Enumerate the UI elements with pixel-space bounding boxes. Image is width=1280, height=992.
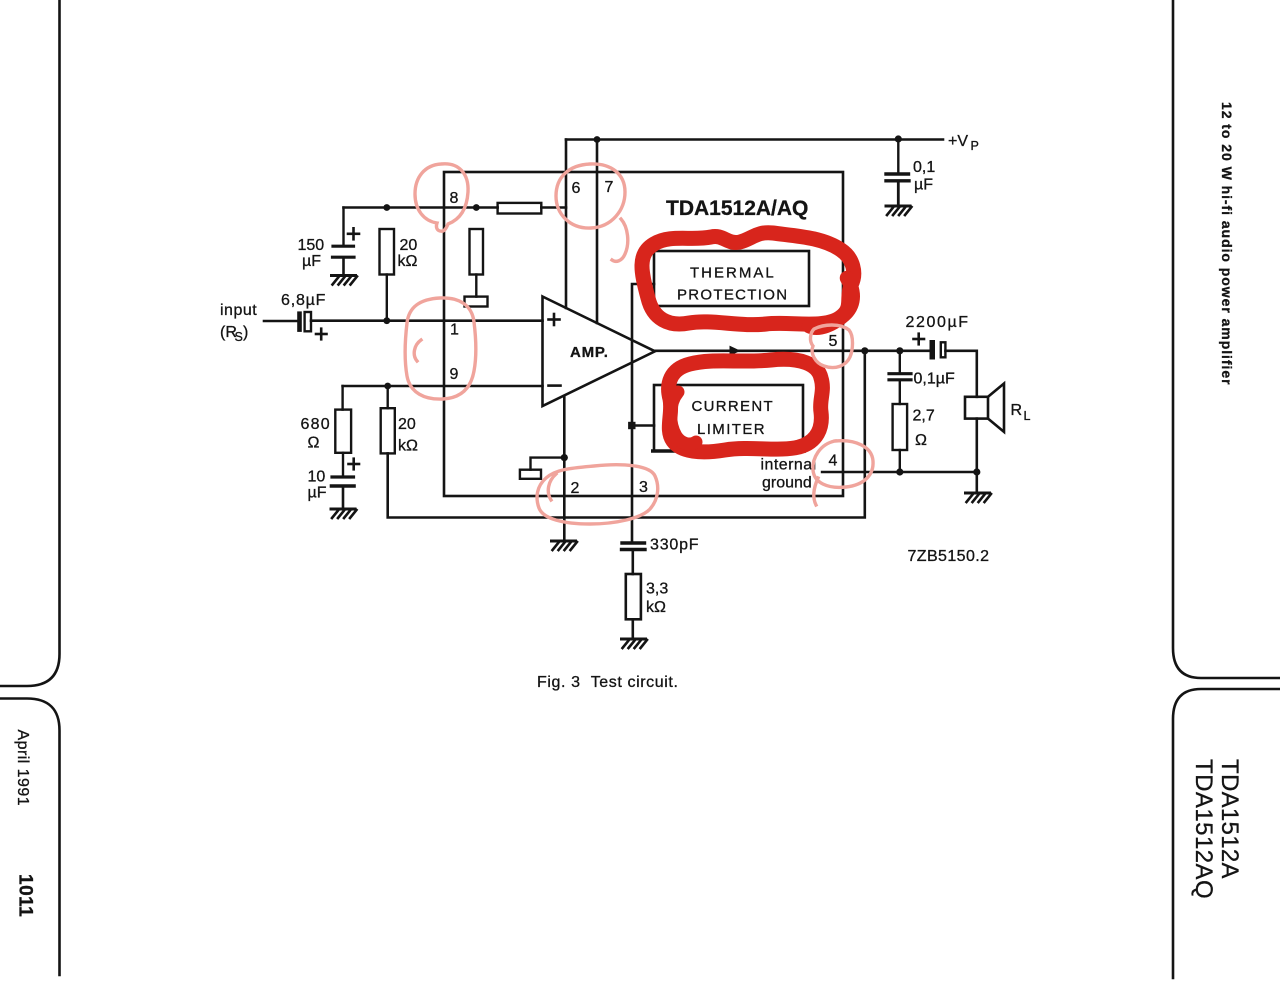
loudspeaker RL bbox=[965, 397, 988, 419]
svg-text:3,3: 3,3 bbox=[646, 581, 668, 598]
resistor 680 ohm stub bbox=[341, 386, 343, 410]
wire pin 2 vertical bbox=[563, 396, 566, 540]
svg-text:10: 10 bbox=[308, 469, 326, 486]
capacitor C 0.1uF supply: stub bbox=[897, 139, 899, 172]
red marker loop around thermal protection bbox=[642, 233, 854, 325]
tab terminal near pin 2 bbox=[520, 470, 541, 479]
svg-text:2200µF: 2200µF bbox=[906, 314, 970, 331]
pink circle around pins 1 and 9 bbox=[405, 298, 476, 399]
svg-text:680: 680 bbox=[301, 416, 331, 433]
svg-text:2,7: 2,7 bbox=[913, 408, 935, 425]
svg-text:5: 5 bbox=[829, 333, 838, 350]
svg-text:CURRENT: CURRENT bbox=[692, 398, 774, 415]
current limiter box bbox=[654, 385, 803, 451]
svg-text:input: input bbox=[220, 302, 257, 319]
svg-text:2: 2 bbox=[571, 480, 580, 497]
node output/zobel bbox=[896, 347, 903, 354]
node rail/20k top bbox=[383, 204, 390, 211]
op-amp AMP triangle bbox=[543, 297, 656, 407]
pink circle around pins 2 and 3 bbox=[537, 465, 658, 524]
pink circle around pin 5 bbox=[810, 325, 852, 368]
plus sign 150uF bbox=[348, 233, 359, 236]
capacitor C 6.8uF input bbox=[297, 311, 302, 332]
capacitor C 0.1uF supply plates bbox=[886, 172, 909, 175]
svg-text:3: 3 bbox=[639, 479, 648, 496]
resistor 20k upper bbox=[380, 229, 395, 275]
svg-text:0,1: 0,1 bbox=[913, 159, 935, 176]
resistor horizontal pin8-pin6 bbox=[498, 203, 542, 214]
svg-text:ground: ground bbox=[762, 475, 812, 492]
svg-text:20: 20 bbox=[398, 416, 416, 433]
node rail/second divider bbox=[473, 204, 480, 211]
svg-text:6,8µF: 6,8µF bbox=[281, 292, 326, 309]
capacitor C 2200uF plates bbox=[930, 340, 936, 360]
svg-text:µF: µF bbox=[914, 177, 933, 194]
svg-text:8: 8 bbox=[450, 190, 459, 207]
red marker loop around current limiter bbox=[669, 359, 823, 452]
svg-text:7: 7 bbox=[605, 179, 614, 196]
node output/feedback bbox=[861, 347, 868, 354]
wire pin 6 vertical bbox=[565, 140, 568, 309]
svg-text:P: P bbox=[971, 139, 979, 153]
red marker wiggle left of current limiter bbox=[671, 392, 696, 444]
ground below 10uF bbox=[331, 509, 357, 518]
wire pin 1 input bbox=[311, 319, 543, 322]
resistor divider second chain bbox=[470, 229, 484, 275]
plus sign 2200uF bbox=[914, 338, 925, 341]
capacitor C 10uF stub bbox=[342, 453, 344, 475]
node pin3/current limiter bbox=[628, 422, 635, 429]
svg-text:LIMITER: LIMITER bbox=[697, 421, 766, 438]
svg-text:): ) bbox=[243, 324, 248, 341]
wire output pin 5 bbox=[655, 349, 930, 352]
svg-text:kΩ: kΩ bbox=[398, 438, 418, 455]
svg-text:9: 9 bbox=[450, 366, 459, 383]
wire current limiter to pin 3 bbox=[632, 424, 654, 427]
pink circle around pin 4 bbox=[813, 441, 873, 505]
page border left top bbox=[0, 0, 60, 686]
node top rail / pin7 bbox=[594, 136, 601, 143]
ground below pin 2 bbox=[552, 541, 578, 550]
wire speaker return to ground bbox=[975, 472, 978, 492]
capacitor C 0.1uF zobel stub bbox=[899, 351, 901, 372]
svg-text:1011: 1011 bbox=[15, 874, 36, 917]
wire pin 9 feedback input bbox=[343, 385, 543, 388]
node pin9/20k lower bbox=[384, 383, 391, 390]
node top rail / Vp decoupling bbox=[895, 135, 902, 142]
svg-text:kΩ: kΩ bbox=[646, 599, 666, 616]
resistor 2.7 ohm bbox=[893, 404, 908, 450]
IC box TDA1512A/AQ bbox=[444, 172, 843, 496]
page border right bottom bbox=[1173, 689, 1280, 978]
ground below 3.3k bbox=[622, 639, 648, 648]
wire pin8 top-left rail bbox=[344, 206, 498, 209]
node input/20k bbox=[383, 317, 390, 324]
ground at speaker return bbox=[966, 493, 992, 502]
svg-text:PROTECTION: PROTECTION bbox=[677, 287, 788, 304]
ground below 150uF bbox=[332, 276, 358, 285]
page border right top bbox=[1173, 0, 1280, 678]
svg-text:20: 20 bbox=[400, 237, 418, 254]
input lead wire bbox=[264, 320, 297, 323]
wire tab to pin 2 bbox=[531, 458, 565, 470]
wire 3.3k to ground bbox=[631, 619, 634, 638]
svg-text:TDA1512A/AQ: TDA1512A/AQ bbox=[666, 197, 808, 220]
svg-text:TDA1512A: TDA1512A bbox=[1216, 759, 1243, 879]
amp plus input marker bbox=[549, 318, 560, 321]
svg-text:R: R bbox=[1011, 402, 1023, 419]
capacitor C 330pF plates bbox=[622, 541, 645, 544]
pink circle around pins 6 and 7 bbox=[556, 164, 628, 261]
amp minus input marker bbox=[549, 384, 561, 387]
svg-text:7ZB5150.2: 7ZB5150.2 bbox=[908, 548, 990, 565]
tab terminal below divider bbox=[465, 297, 488, 307]
signal arrow on output wire bbox=[730, 346, 741, 356]
resistor 20k lower stub bbox=[387, 386, 389, 408]
wire 2200uF to speaker bbox=[946, 351, 977, 397]
capacitor C 150uF plates bbox=[333, 245, 354, 248]
svg-text:Ω: Ω bbox=[308, 435, 320, 452]
svg-text:12 to 20 W hi-fi audio power a: 12 to 20 W hi-fi audio power amplifier bbox=[1219, 102, 1235, 385]
svg-text:April 1991: April 1991 bbox=[14, 730, 31, 807]
svg-text:THERMAL: THERMAL bbox=[690, 265, 776, 282]
page border left bottom bbox=[0, 699, 60, 976]
svg-text:S: S bbox=[235, 330, 243, 344]
wire top supply rail bbox=[566, 138, 943, 141]
capacitor C 150uF stub bbox=[342, 208, 344, 246]
svg-text:330pF: 330pF bbox=[650, 537, 699, 554]
node pin4/zobel bbox=[896, 468, 903, 475]
thermal protection box bbox=[654, 251, 809, 306]
capacitor C 10uF plates bbox=[332, 475, 354, 478]
svg-text:150: 150 bbox=[298, 237, 325, 254]
wire pin 7 vertical bbox=[596, 140, 599, 324]
resistor 20k lower bbox=[381, 408, 395, 453]
plus sign 6.8uF bbox=[316, 333, 327, 336]
svg-text:0,1µF: 0,1µF bbox=[914, 371, 955, 388]
plus sign 10uF bbox=[349, 463, 360, 466]
resistor 680 ohm bbox=[335, 410, 351, 453]
capacitor C 0.1uF zobel plates bbox=[889, 372, 911, 375]
svg-text:1: 1 bbox=[450, 322, 459, 339]
svg-text:µF: µF bbox=[302, 253, 321, 270]
svg-text:Fig. 3 Test circuit.: Fig. 3 Test circuit. bbox=[537, 674, 679, 691]
svg-text:AMP.: AMP. bbox=[570, 344, 609, 361]
node pin4/speaker return bbox=[973, 468, 980, 475]
svg-text:L: L bbox=[1024, 409, 1031, 423]
wire feedback bottom loop bbox=[388, 351, 865, 518]
svg-text:TDA1512AQ: TDA1512AQ bbox=[1190, 759, 1217, 899]
node tab/pin2 bbox=[561, 454, 568, 461]
wire pin 3 vertical bbox=[632, 284, 654, 541]
svg-text:4: 4 bbox=[829, 453, 838, 470]
svg-text:+V: +V bbox=[948, 133, 968, 150]
svg-text:6: 6 bbox=[572, 180, 581, 197]
red marker tail at pin 5 side bbox=[809, 278, 853, 328]
ground below supply capacitor bbox=[886, 206, 912, 215]
svg-text:kΩ: kΩ bbox=[398, 253, 418, 270]
svg-text:µF: µF bbox=[308, 485, 327, 502]
svg-text:Ω: Ω bbox=[915, 432, 927, 449]
svg-text:internal: internal bbox=[761, 457, 817, 474]
pink circle around pin 8 bbox=[415, 164, 468, 231]
resistor 3.3k bbox=[626, 574, 641, 619]
wire pin 4 internal ground bbox=[822, 471, 977, 473]
